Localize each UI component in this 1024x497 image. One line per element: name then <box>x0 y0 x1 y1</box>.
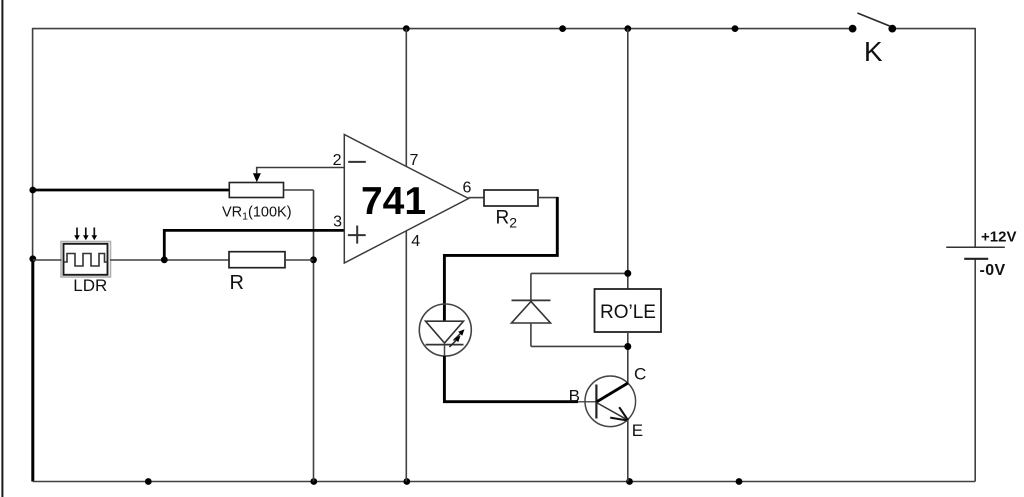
node R right rail junction <box>310 256 317 263</box>
transistor Q1 <box>585 376 636 427</box>
svg-text:B: B <box>569 387 580 406</box>
wire diode bottom branch <box>531 345 628 347</box>
wire pin 6 output <box>469 197 485 199</box>
node bottom junction b1 <box>145 478 152 485</box>
wire LDR left <box>33 259 62 261</box>
LED D2 <box>419 304 471 356</box>
node relay rail top junction <box>624 25 631 32</box>
node top right junction <box>732 25 739 32</box>
wire mid rail vertical <box>313 190 315 482</box>
node bottom junction b4 <box>626 478 633 485</box>
svg-text:LDR: LDR <box>73 276 107 295</box>
wire R2 output <box>538 197 558 199</box>
wire R2 to LED thick <box>444 197 557 321</box>
svg-text:K: K <box>864 36 883 67</box>
svg-text:-0V: -0V <box>980 262 1006 279</box>
potentiometer VR1 <box>222 173 292 222</box>
wire relay rail upper <box>627 29 629 289</box>
wire VR1 input thick <box>33 189 230 192</box>
node bottom junction b2 <box>310 478 317 485</box>
svg-text:C: C <box>634 364 646 383</box>
op-amp U1 741 <box>344 135 468 264</box>
battery B1 <box>946 228 1016 279</box>
svg-text:3: 3 <box>333 214 342 231</box>
wire pin 4 to bottom rail <box>405 231 407 482</box>
wire R output <box>285 259 314 261</box>
node bottom junction b3 <box>403 478 410 485</box>
svg-text:2: 2 <box>333 152 342 169</box>
node bottom junction b5 <box>736 478 743 485</box>
node diode bottom junction <box>624 343 631 350</box>
wire right rail upper <box>974 28 976 247</box>
wire top rail right segment <box>892 28 975 30</box>
resistor R <box>229 252 285 294</box>
svg-text:VR1(100K): VR1(100K) <box>222 205 292 223</box>
wire VR1 wiper to pin 2 <box>257 168 345 174</box>
wire LED to base thick <box>444 356 578 402</box>
wire emitter to bottom rail <box>627 420 629 482</box>
wire base lead <box>578 401 596 403</box>
LDR <box>61 228 111 295</box>
wire LDR to R <box>110 259 229 261</box>
wire top rail left segment <box>33 28 853 30</box>
wire pin 7 to top rail <box>405 29 407 167</box>
svg-text:741: 741 <box>361 180 426 223</box>
wire left rail upper <box>32 28 34 259</box>
svg-text:+12V: +12V <box>981 228 1016 245</box>
wire pin3 riser thick <box>164 230 344 259</box>
wire right rail lower <box>974 259 976 482</box>
svg-text:4: 4 <box>411 233 420 250</box>
node VR1 left junction <box>29 187 36 194</box>
svg-text:R: R <box>230 272 244 294</box>
diode D1 flyback <box>512 273 551 346</box>
node pin3 riser junction <box>161 256 168 263</box>
wire relay to collector node <box>627 332 629 383</box>
resistor R2 <box>484 190 538 230</box>
svg-text:RO’LE: RO’LE <box>600 302 656 323</box>
wire diode top branch <box>531 272 628 274</box>
node P7 top junction <box>403 25 410 32</box>
wire VR1 output to rail <box>284 189 314 191</box>
node LDR left junction <box>29 255 36 262</box>
wire bottom rail <box>33 481 976 483</box>
relay RO'LE <box>595 289 662 332</box>
svg-text:E: E <box>632 421 643 440</box>
switch K <box>849 13 897 67</box>
node top mid junction <box>559 25 566 32</box>
node diode top junction <box>624 270 631 277</box>
svg-text:7: 7 <box>410 152 419 169</box>
svg-text:6: 6 <box>463 180 472 197</box>
wire left rail lower thick <box>31 259 34 482</box>
